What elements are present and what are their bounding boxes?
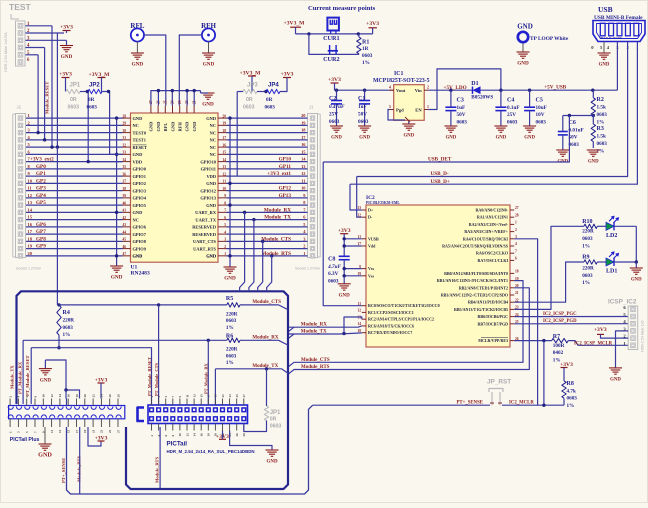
svg-text:GND: GND [133, 254, 143, 259]
svg-text:13: 13 [58, 429, 62, 433]
svg-text:11: 11 [50, 430, 54, 433]
svg-text:1%: 1% [582, 280, 590, 286]
svg-text:GPIO7: GPIO7 [133, 232, 147, 237]
svg-text:+3V3_ext2: +3V3_ext2 [30, 157, 54, 163]
svg-text:8: 8 [224, 201, 226, 205]
svg-text:RC2/AN14/CTPLS/CCP1/P1A/IOCC2: RC2/AN14/CTPLS/CCP1/P1A/IOCC2 [368, 317, 434, 322]
svg-text:Module_RTS: Module_RTS [154, 456, 159, 483]
svg-text:0603: 0603 [536, 120, 547, 126]
svg-text:GND: GND [403, 134, 414, 139]
svg-text:RB4/AN11/P1D/IOCB4: RB4/AN11/P1D/IOCB4 [468, 300, 508, 305]
svg-text:D-: D- [368, 215, 373, 220]
svg-text:0402: 0402 [553, 350, 564, 356]
svg-text:NC: NC [210, 145, 216, 150]
svg-text:NC: NC [210, 152, 216, 157]
svg-text:Module_TX: Module_TX [10, 365, 15, 389]
svg-text:RC0/SOSCO/T1CKI/T3CKI/T3G/IOCC: RC0/SOSCO/T1CKI/T3CKI/T3G/IOCC0 [368, 303, 440, 308]
svg-text:GPIO1: GPIO1 [133, 174, 146, 179]
svg-text:11: 11 [223, 180, 227, 184]
svg-text:44: 44 [123, 230, 127, 234]
svg-text:1: 1 [224, 252, 226, 256]
svg-text:26: 26 [108, 394, 112, 398]
svg-text:0603: 0603 [265, 105, 276, 111]
svg-text:JP2: JP2 [89, 83, 100, 89]
svg-text:0.1uF: 0.1uF [507, 105, 520, 111]
svg-text:C2: C2 [329, 96, 336, 102]
svg-text:0R: 0R [70, 97, 77, 103]
svg-text:50V: 50V [358, 112, 367, 118]
svg-text:GP1: GP1 [36, 171, 46, 177]
svg-text:21: 21 [515, 291, 519, 295]
svg-text:28: 28 [123, 114, 127, 118]
svg-text:34: 34 [123, 158, 127, 162]
svg-text:18: 18 [357, 329, 361, 333]
svg-text:JP_RST: JP_RST [487, 379, 511, 386]
svg-text:5: 5 [224, 223, 226, 227]
svg-text:GND: GND [156, 122, 161, 132]
svg-text:Module_RTS: Module_RTS [261, 251, 291, 257]
svg-text:JP1: JP1 [270, 410, 281, 416]
svg-text:12: 12 [185, 433, 189, 437]
svg-text:Module_TX: Module_TX [301, 329, 327, 334]
svg-text:RN2483: RN2483 [131, 271, 150, 277]
svg-text:40: 40 [123, 201, 127, 205]
svg-text:R8: R8 [567, 381, 574, 387]
svg-text:6: 6 [224, 216, 226, 220]
svg-text:MCLR/VPP/RE3: MCLR/VPP/RE3 [478, 338, 508, 343]
svg-text:220R: 220R [226, 347, 238, 353]
svg-text:IC2_ICSP_PGC: IC2_ICSP_PGC [543, 312, 577, 317]
svg-text:12: 12 [301, 171, 305, 176]
svg-text:25: 25 [164, 100, 168, 104]
svg-text:GND: GND [610, 378, 621, 383]
svg-text:RESERVED: RESERVED [192, 225, 216, 230]
svg-text:Module_CTS: Module_CTS [261, 236, 291, 242]
svg-text:GP4: GP4 [36, 193, 46, 199]
svg-text:IC1: IC1 [394, 71, 403, 77]
svg-text:10V: 10V [536, 112, 545, 118]
svg-text:GND: GND [149, 122, 154, 132]
svg-text:4: 4 [224, 230, 226, 234]
svg-text:GPIO5: GPIO5 [133, 203, 147, 208]
svg-text:17: 17 [207, 394, 211, 398]
svg-text:PICTail: PICTail [167, 441, 188, 448]
svg-text:0603: 0603 [362, 53, 373, 59]
svg-text:PT_Module_RESET: PT_Module_RESET [147, 357, 152, 396]
svg-text:Module_RX: Module_RX [301, 323, 328, 328]
svg-text:19: 19 [83, 429, 87, 433]
svg-text:+3V3: +3V3 [594, 327, 607, 333]
svg-text:0R: 0R [270, 417, 277, 423]
svg-text:5: 5 [389, 105, 391, 109]
svg-text:GND: GND [38, 452, 52, 459]
svg-text:UART_TX: UART_TX [195, 217, 216, 222]
svg-text:220R: 220R [63, 317, 75, 323]
svg-text:220R: 220R [582, 229, 594, 235]
svg-text:Module_RX: Module_RX [252, 336, 279, 341]
svg-text:IC2_MCLR: IC2_MCLR [509, 401, 534, 406]
svg-text:0603: 0603 [582, 273, 593, 279]
svg-text:32: 32 [123, 143, 127, 147]
svg-text:EN: EN [415, 108, 422, 113]
svg-text:28: 28 [116, 394, 120, 398]
svg-text:VUSB: VUSB [368, 236, 379, 241]
svg-text:GPIO4: GPIO4 [133, 196, 147, 201]
svg-text:Vss: Vss [368, 266, 374, 271]
svg-text:C4: C4 [507, 98, 514, 104]
svg-text:0603: 0603 [597, 112, 608, 118]
svg-text:PT+_SENSE: PT+_SENSE [457, 401, 483, 406]
svg-text:4.7uF: 4.7uF [327, 264, 341, 270]
svg-text:10uF: 10uF [536, 105, 547, 111]
svg-text:39: 39 [123, 194, 127, 198]
svg-text:RA3/AN3/C1IN+/VREF+: RA3/AN3/C1IN+/VREF+ [464, 229, 508, 234]
svg-text:31: 31 [123, 136, 127, 140]
svg-text:B0520WS: B0520WS [471, 95, 493, 101]
svg-text:25V: 25V [507, 112, 516, 118]
svg-text:Pgd: Pgd [396, 108, 404, 113]
svg-text:GND: GND [359, 136, 370, 141]
svg-text:0603: 0603 [358, 119, 369, 125]
svg-text:19: 19 [222, 122, 226, 126]
svg-text:0603: 0603 [328, 278, 339, 284]
svg-text:25: 25 [235, 394, 239, 398]
svg-text:0603: 0603 [68, 105, 80, 111]
svg-text:20: 20 [83, 394, 87, 398]
svg-text:J2: J2 [17, 105, 22, 110]
svg-text:2: 2 [303, 244, 305, 249]
svg-text:GPIO3: GPIO3 [133, 188, 147, 193]
svg-text:GND: GND [185, 122, 190, 132]
svg-text:0603: 0603 [569, 142, 580, 148]
svg-text:USB_DET: USB_DET [428, 157, 452, 163]
svg-text:Socket 1.27mm: Socket 1.27mm [16, 267, 41, 271]
svg-text:RFL: RFL [163, 123, 168, 132]
svg-text:RB3/AN9/C12IN2-/CTED2/CCP2/SDO: RB3/AN9/C12IN2-/CTED2/CCP2/SDO [441, 293, 508, 298]
svg-text:UART_RX: UART_RX [195, 210, 217, 215]
svg-text:1.5k: 1.5k [597, 105, 606, 111]
svg-text:PIC18LF25K50-I/ML: PIC18LF25K50-I/ML [366, 201, 400, 205]
svg-text:29: 29 [123, 122, 127, 126]
svg-text:USB_D-: USB_D- [431, 171, 449, 177]
svg-text:GP5: GP5 [36, 200, 46, 206]
svg-text:C1: C1 [358, 96, 365, 102]
svg-text:0603: 0603 [243, 105, 255, 111]
svg-text:GND: GND [631, 278, 642, 283]
svg-text:2: 2 [515, 228, 517, 232]
svg-text:GP13: GP13 [279, 193, 292, 199]
svg-text:1%: 1% [597, 149, 605, 155]
svg-text:UART_RTS: UART_RTS [193, 246, 216, 251]
svg-text:17: 17 [222, 136, 226, 140]
svg-text:Module_RTS: Module_RTS [77, 455, 82, 482]
svg-text:GND: GND [224, 276, 236, 282]
svg-text:27: 27 [515, 206, 519, 210]
svg-text:33: 33 [123, 151, 127, 155]
svg-text:21: 21 [91, 429, 95, 433]
svg-text:GND: GND [588, 160, 599, 165]
svg-text:Vin: Vin [415, 88, 422, 93]
svg-text:R10: R10 [582, 219, 592, 225]
svg-text:220R: 220R [582, 265, 594, 271]
svg-text:11: 11 [301, 178, 305, 183]
svg-text:PT_Module_RX: PT_Module_RX [204, 362, 209, 394]
svg-text:100R: 100R [553, 343, 565, 349]
svg-text:RA4/C1OUT/SRQ/T0CKI: RA4/C1OUT/SRQ/T0CKI [463, 236, 509, 241]
svg-text:GND: GND [203, 62, 215, 68]
svg-text:27: 27 [242, 394, 246, 398]
svg-text:RA5/AN4/C2OUT/SRNQ/HLVDIN/SS: RA5/AN4/C2OUT/SRNQ/HLVDIN/SS [442, 244, 509, 249]
svg-text:GND: GND [206, 254, 216, 259]
svg-text:4: 4 [389, 86, 391, 90]
svg-text:GP6: GP6 [36, 222, 46, 228]
svg-text:15: 15 [200, 394, 204, 398]
svg-text:1.5k: 1.5k [597, 134, 606, 140]
svg-text:GP3: GP3 [36, 186, 46, 192]
svg-text:7: 7 [224, 209, 226, 213]
svg-text:18: 18 [222, 129, 226, 133]
svg-text:RB5/AN13/T1G/T3CKI/IOCB5: RB5/AN13/T1G/T3CKI/IOCB5 [454, 307, 508, 312]
svg-text:0603: 0603 [582, 236, 593, 242]
svg-text:GPIO12: GPIO12 [200, 188, 216, 193]
svg-text:VDD: VDD [133, 159, 143, 164]
svg-text:16: 16 [67, 394, 71, 398]
svg-text:+5V_LDO: +5V_LDO [444, 85, 467, 91]
svg-text:GND: GND [599, 63, 610, 68]
svg-text:16: 16 [222, 143, 226, 147]
svg-text:26: 26 [235, 433, 239, 437]
svg-text:14: 14 [357, 322, 361, 326]
svg-text:R3: R3 [597, 126, 604, 132]
svg-text:23: 23 [228, 394, 232, 398]
svg-text:1: 1 [427, 105, 429, 109]
svg-text:13: 13 [222, 165, 226, 169]
svg-text:19: 19 [214, 394, 218, 398]
svg-text:RA1/AN1/C12IN1: RA1/AN1/C12IN1 [477, 215, 508, 220]
svg-text:D+: D+ [368, 208, 374, 213]
svg-text:12: 12 [50, 394, 54, 398]
svg-text:1%: 1% [597, 120, 605, 126]
svg-text:13: 13 [192, 394, 196, 398]
svg-text:1: 1 [28, 113, 30, 118]
svg-text:30: 30 [123, 129, 127, 133]
svg-text:RFH: RFH [178, 122, 183, 132]
svg-text:JP1: JP1 [70, 83, 81, 89]
svg-text:Vss: Vss [368, 273, 374, 278]
svg-text:PT_Module_RESET: PT_Module_RESET [25, 355, 30, 396]
svg-text:GND: GND [446, 136, 457, 141]
svg-text:18: 18 [515, 270, 519, 274]
svg-text:GP2: GP2 [36, 178, 46, 184]
svg-text:0.47uF: 0.47uF [329, 104, 345, 110]
svg-text:VDD: VDD [206, 174, 216, 179]
svg-text:TEST1: TEST1 [133, 138, 146, 143]
svg-text:1%: 1% [582, 243, 590, 249]
svg-text:0603: 0603 [567, 396, 578, 402]
svg-text:R9: R9 [582, 255, 589, 261]
svg-text:Current measure points: Current measure points [308, 5, 376, 12]
svg-text:0R: 0R [266, 97, 273, 103]
svg-text:23: 23 [100, 429, 104, 433]
svg-text:LD1: LD1 [606, 269, 617, 275]
svg-text:9: 9 [224, 194, 226, 198]
svg-text:0603: 0603 [63, 325, 74, 331]
svg-text:NC: NC [210, 130, 216, 135]
svg-text:NC: NC [133, 123, 139, 128]
svg-text:1%: 1% [63, 332, 71, 338]
svg-text:UART_CTS: UART_CTS [193, 239, 217, 244]
svg-text:27: 27 [116, 429, 120, 433]
svg-text:4: 4 [515, 242, 517, 246]
svg-text:GPIO13: GPIO13 [200, 196, 216, 201]
svg-text:22: 22 [91, 394, 95, 398]
svg-text:CUR1: CUR1 [323, 35, 340, 42]
svg-text:GP9: GP9 [36, 244, 46, 250]
svg-text:12: 12 [222, 172, 226, 176]
svg-text:R4: R4 [63, 310, 70, 316]
svg-text:14: 14 [58, 394, 62, 398]
svg-text:18: 18 [75, 394, 79, 398]
svg-text:1uF: 1uF [457, 105, 466, 111]
svg-text:12: 12 [357, 309, 361, 313]
svg-text:0603: 0603 [597, 141, 608, 147]
svg-text:GND: GND [496, 136, 507, 141]
svg-text:RESERVED: RESERVED [192, 232, 216, 237]
svg-text:Module_TX: Module_TX [264, 215, 291, 221]
svg-text:RESET: RESET [133, 145, 147, 150]
svg-text:GND: GND [61, 54, 73, 60]
svg-text:GND: GND [339, 294, 351, 299]
svg-text:0.01uF: 0.01uF [569, 127, 584, 133]
svg-text:Module_RESET: Module_RESET [45, 82, 50, 114]
svg-text:TEST0: TEST0 [133, 130, 147, 135]
svg-text:1R: 1R [362, 46, 369, 52]
svg-text:+3V3: +3V3 [328, 77, 341, 83]
svg-text:1%: 1% [362, 60, 370, 66]
svg-text:D1: D1 [471, 81, 478, 87]
svg-text:42: 42 [123, 216, 127, 220]
svg-text:GND: GND [40, 378, 52, 383]
svg-text:1%: 1% [226, 325, 234, 331]
svg-text:USB_D+: USB_D+ [431, 179, 450, 185]
svg-text:JP3: JP3 [247, 83, 258, 89]
svg-text:GND: GND [133, 210, 143, 215]
svg-text:Vdd: Vdd [368, 244, 376, 249]
svg-text:GND: GND [206, 203, 216, 208]
svg-text:14: 14 [222, 158, 226, 162]
svg-text:38: 38 [123, 187, 127, 191]
svg-text:0603: 0603 [87, 105, 98, 111]
svg-text:GND: GND [202, 102, 214, 108]
svg-text:HDR-2.54 Male 1x6: HDR-2.54 Male 1x6 [641, 320, 645, 352]
svg-text:RC6/AN18/TX/CK/IOCC6: RC6/AN18/TX/CK/IOCC6 [368, 323, 414, 328]
svg-text:2: 2 [427, 86, 429, 90]
svg-text:0R: 0R [246, 97, 253, 103]
svg-text:R7: R7 [553, 334, 560, 340]
svg-text:NC: NC [210, 138, 216, 143]
svg-text:RC1/CCP2/SOSCI/IOCC1: RC1/CCP2/SOSCI/IOCC1 [368, 310, 414, 315]
svg-text:PT_Module_RX: PT_Module_RX [18, 361, 23, 394]
svg-text:GND: GND [132, 62, 144, 68]
svg-text:6: 6 [515, 257, 517, 261]
svg-text:GP11: GP11 [279, 164, 292, 170]
svg-text:+5V_USB: +5V_USB [544, 85, 567, 91]
svg-text:RB0/AN12/SRI/FLT0/SDI/SDA/INT0: RB0/AN12/SRI/FLT0/SDI/SDA/INT0 [444, 271, 508, 276]
svg-text:NC: NC [133, 217, 139, 222]
svg-text:IC2_ICSP_PGD: IC2_ICSP_PGD [543, 319, 577, 324]
svg-text:+3V3: +3V3 [59, 72, 72, 78]
svg-text:24: 24 [100, 394, 104, 398]
svg-text:18: 18 [207, 433, 211, 437]
svg-text:+3V3_ext1: +3V3_ext1 [267, 171, 291, 177]
svg-text:25: 25 [108, 429, 112, 433]
svg-text:0R: 0R [88, 97, 95, 103]
svg-text:RB7/IOCB7/PGD: RB7/IOCB7/PGD [478, 321, 509, 326]
svg-text:220R: 220R [226, 311, 238, 317]
svg-text:1uF: 1uF [358, 104, 367, 110]
svg-text:GND: GND [517, 61, 529, 67]
svg-text:GP0: GP0 [36, 164, 46, 170]
svg-text:TP LOOP White: TP LOOP White [530, 36, 569, 42]
svg-text:NC: NC [210, 123, 216, 128]
svg-text:GND: GND [192, 122, 197, 132]
svg-text:11: 11 [28, 186, 32, 191]
svg-text:46: 46 [123, 245, 127, 249]
svg-text:0603: 0603 [507, 120, 518, 126]
svg-text:17: 17 [75, 429, 79, 433]
svg-text:GND: GND [111, 275, 123, 281]
svg-text:R5: R5 [226, 296, 233, 302]
svg-text:RB6/IOCB6/PGC: RB6/IOCB6/PGC [478, 314, 509, 319]
svg-text:41: 41 [123, 209, 127, 213]
svg-text:CUR2: CUR2 [323, 56, 340, 63]
svg-text:2: 2 [224, 245, 226, 249]
svg-text:GND: GND [266, 460, 278, 465]
svg-text:LD2: LD2 [606, 233, 617, 239]
svg-text:GP10: GP10 [279, 157, 292, 163]
svg-text:1: 1 [515, 221, 517, 225]
svg-text:GND: GND [524, 136, 535, 141]
svg-text:GND: GND [331, 136, 342, 141]
svg-text:0603: 0603 [329, 119, 340, 125]
svg-text:GND: GND [170, 122, 175, 132]
svg-text:45: 45 [123, 238, 127, 242]
svg-text:1: 1 [303, 251, 305, 256]
svg-text:50V: 50V [457, 112, 466, 118]
svg-text:12: 12 [28, 193, 32, 198]
svg-text:RB1/AN10/C12IN3-/P1C/SCK/SCL/I: RB1/AN10/C12IN3-/P1C/SCK/SCL/INT1 [437, 278, 508, 283]
svg-text:GPIO9: GPIO9 [133, 246, 147, 251]
svg-text:28: 28 [515, 213, 519, 217]
svg-text:R6: R6 [226, 333, 233, 339]
svg-text:R2: R2 [597, 97, 604, 103]
svg-text:0603: 0603 [270, 423, 282, 429]
svg-text:1%: 1% [567, 403, 575, 409]
svg-text:GPIO0: GPIO0 [133, 167, 147, 172]
svg-text:0603: 0603 [226, 318, 237, 324]
svg-text:J1: J1 [309, 105, 314, 110]
svg-text:GP8: GP8 [36, 236, 46, 242]
svg-text:GND: GND [206, 116, 216, 121]
svg-text:GPIO2: GPIO2 [133, 181, 146, 186]
svg-text:VBUS D- D+ ID GND: VBUS D- D+ ID GND [599, 37, 622, 40]
svg-text:C8: C8 [328, 257, 335, 263]
svg-text:Module_CTS: Module_CTS [252, 300, 281, 305]
svg-text:1%: 1% [226, 360, 234, 366]
svg-text:2: 2 [28, 120, 30, 125]
svg-text:GPIO10: GPIO10 [200, 159, 216, 164]
svg-text:IC2_ICSP_MCLR: IC2_ICSP_MCLR [574, 342, 613, 347]
